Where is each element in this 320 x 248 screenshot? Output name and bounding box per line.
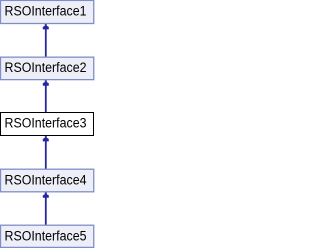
node RSOInterface3 box (current class, highlighted) [1,113,94,136]
svg-text:RSOInterface5: RSOInterface5 [5,228,87,243]
inheritance edge RSOInterface5 to RSOInterface4 arrowhead [43,193,49,198]
node RSOInterface1 box [1,0,94,23]
svg-text:RSOInterface1: RSOInterface1 [5,3,87,18]
node RSOInterface4 box [1,169,94,192]
inheritance edge RSOInterface2 to RSOInterface1 wire [45,29,47,57]
node RSOInterface2 box [1,57,94,80]
node RSOInterface5 box [1,225,94,247]
svg-text:RSOInterface3: RSOInterface3 [5,116,87,131]
inheritance edge RSOInterface3 to RSOInterface2 wire [45,85,47,112]
inheritance edge RSOInterface4 to RSOInterface3 arrowhead [43,136,49,141]
inheritance edge RSOInterface5 to RSOInterface4 wire [45,198,47,226]
svg-text:RSOInterface2: RSOInterface2 [5,60,87,75]
inheritance edge RSOInterface3 to RSOInterface2 arrowhead [43,80,49,85]
inheritance edge RSOInterface2 to RSOInterface1 arrowhead [43,24,49,29]
inheritance edge RSOInterface4 to RSOInterface3 wire [45,141,47,169]
svg-text:RSOInterface4: RSOInterface4 [5,172,87,187]
